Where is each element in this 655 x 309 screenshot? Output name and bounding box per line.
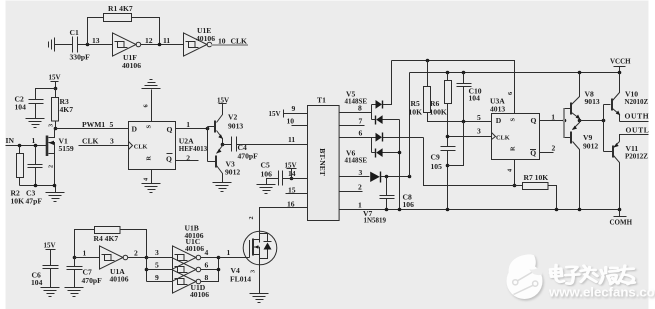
capacitor C10 (463, 73, 465, 84)
svg-text:16: 16 (287, 200, 295, 209)
wire T1 pin 6 (340, 137, 372, 139)
svg-text:106: 106 (403, 200, 415, 209)
svg-text:8: 8 (205, 273, 209, 282)
svg-text:C1: C1 (70, 28, 79, 37)
transistor V10 N2010Z NPN (604, 73, 620, 122)
wire feedback to D (448, 122, 464, 166)
svg-text:106: 106 (261, 170, 273, 179)
svg-text:CLK: CLK (496, 134, 510, 141)
node VCCH rail / V8 collector (578, 71, 582, 75)
svg-text:4148SE: 4148SE (345, 157, 368, 165)
node V10/V11 base (602, 119, 606, 123)
wire U1A out (128, 257, 147, 259)
svg-text:5159: 5159 (59, 144, 74, 153)
svg-text:1: 1 (32, 136, 36, 145)
op-amp U1E (schmitt inverter) (184, 33, 212, 56)
wire U1D out (201, 258, 219, 282)
node C9 bottom rail (446, 208, 450, 212)
node VCCH (618, 71, 622, 75)
node outputs (217, 256, 221, 260)
svg-text:3: 3 (250, 270, 257, 273)
node V8/V9 base (563, 119, 567, 123)
node V8/V9 emitters (578, 119, 582, 123)
svg-text:47pF: 47pF (26, 197, 43, 206)
flip-flop U3A (492, 114, 540, 160)
ground (U2A pin 4) (142, 184, 161, 193)
svg-text:2: 2 (248, 216, 255, 219)
svg-text:4148SE: 4148SE (345, 98, 368, 106)
svg-text:Q: Q (166, 155, 172, 164)
wire C2 to ground (35, 104, 37, 119)
transistor V9 9012 PNP (565, 121, 580, 210)
node pin3 wire end (408, 175, 412, 179)
ground (V4) (250, 294, 269, 303)
wire source rail (20, 186, 56, 193)
wire U3A Qbar stub pin 2 (540, 152, 554, 154)
svg-text:BT-NET: BT-NET (318, 148, 327, 176)
svg-text:104: 104 (15, 103, 27, 112)
capacitor C3 (35, 146, 37, 165)
svg-text:4: 4 (205, 248, 209, 257)
svg-text:4013: 4013 (490, 105, 505, 114)
svg-text:2: 2 (134, 249, 138, 258)
capacitor C8 (386, 177, 388, 196)
wire d3 path to R7 (424, 138, 523, 186)
svg-text:5: 5 (155, 260, 159, 269)
svg-text:104: 104 (469, 94, 481, 103)
svg-text:D: D (496, 116, 502, 125)
svg-text:9: 9 (155, 273, 159, 282)
wire C1 to U1F (78, 44, 113, 46)
svg-text:R: R (510, 146, 517, 151)
svg-text:15V: 15V (217, 97, 229, 105)
wire R4 feedback right (120, 230, 147, 258)
wire U3A Q pin 1 (540, 120, 565, 122)
wire T1 pin 7 stub (340, 125, 365, 127)
ground (C5) (257, 185, 276, 194)
diode V6a (372, 137, 376, 139)
wire emitters to V10/V11 base (580, 120, 604, 122)
ground (V1 source) (46, 193, 65, 202)
svg-text:R: R (146, 156, 153, 161)
svg-text:C9: C9 (431, 153, 440, 162)
node V2/V3 base (206, 127, 210, 131)
capacitor C4 (223, 144, 232, 146)
node D wire / C10 (462, 120, 466, 124)
svg-text:3: 3 (110, 137, 114, 146)
wire U1C input (147, 269, 173, 271)
svg-text:1N5819: 1N5819 (364, 217, 387, 225)
wire input vertical (146, 258, 148, 282)
svg-text:5: 5 (110, 120, 114, 129)
transistor V8 9013 NPN (565, 73, 580, 121)
transistor V3 9012 PNP (208, 145, 223, 183)
svg-text:6: 6 (507, 92, 514, 95)
transformer T1 BT-NET (308, 106, 340, 221)
wire 15V to C2 (36, 89, 56, 100)
node C9 bottom feedback (446, 164, 450, 168)
wire U1F out (141, 44, 184, 46)
capacitor C9 (441, 147, 456, 151)
ground (above U2A pin 6, inverted) (142, 80, 161, 89)
wire T1 pin 8 (340, 105, 372, 120)
wire U2A pin 6 (151, 90, 153, 122)
svg-text:www.elecfans.com: www.elecfans.com (548, 285, 655, 300)
svg-text:P2012Z: P2012Z (625, 152, 648, 160)
wire OUTH (620, 121, 649, 123)
svg-text:6: 6 (359, 129, 363, 138)
wire VCCH rail (410, 73, 620, 177)
svg-text:CLK: CLK (231, 37, 248, 46)
watermark logo elecfans (507, 254, 543, 299)
svg-text:10: 10 (287, 117, 295, 126)
wire U3A pin 3 (448, 136, 493, 138)
svg-text:330pF: 330pF (70, 53, 91, 62)
wire V8/V9 base vertical (563, 108, 565, 138)
svg-text:6: 6 (143, 104, 150, 107)
node 15V (54, 87, 58, 91)
op-amp U1C (schmitt inverter) (173, 258, 201, 281)
wire Q output pin 1 (176, 128, 208, 130)
wire IN (6, 145, 47, 147)
svg-text:S: S (146, 125, 153, 129)
node U1BCD input top (145, 256, 149, 260)
svg-text:Q: Q (167, 125, 173, 134)
svg-text:R4 4K7: R4 4K7 (94, 234, 119, 243)
svg-text:1: 1 (83, 249, 87, 258)
svg-text:40106: 40106 (122, 61, 141, 70)
transistor V1 (47, 129, 55, 186)
watermark text 电子发烧友 (550, 265, 634, 284)
ground (V3) (213, 183, 232, 192)
svg-text:C5: C5 (261, 161, 270, 170)
wire PWM1 (56, 128, 129, 130)
node C10 top (462, 71, 466, 75)
node T1 pin 14 (290, 177, 294, 181)
wire U1B input (147, 257, 173, 259)
transistor V11 P2012Z PNP (604, 142, 620, 210)
node V7 cathode / C8 (385, 175, 389, 179)
svg-text:9013: 9013 (228, 122, 243, 131)
wire CLK to U2A (79, 145, 129, 147)
svg-text:100K: 100K (430, 108, 447, 117)
svg-text:D: D (132, 125, 138, 134)
power 15V (C2/R3) (51, 82, 59, 89)
node pin 4 (513, 184, 517, 188)
transistor V4 FL014 MOSFET (243, 231, 277, 265)
ground (left of C1) (49, 38, 59, 52)
svg-text:Q: Q (531, 116, 537, 125)
svg-text:1: 1 (227, 248, 231, 257)
svg-text:40106: 40106 (190, 290, 209, 299)
svg-text:COMH: COMH (610, 219, 633, 227)
svg-text:OUTH: OUTH (625, 112, 650, 121)
wire C4 to T1 pin 11 (237, 144, 308, 146)
svg-text:CLK: CLK (134, 144, 148, 151)
svg-text:2: 2 (48, 165, 55, 168)
wire base vertical (207, 127, 209, 162)
diode V7 1N5819 (340, 176, 370, 178)
wire T1 pin 14 (292, 178, 308, 180)
wire 15V to R3 (55, 89, 57, 98)
svg-text:3: 3 (155, 248, 159, 257)
op-amp U1F (schmitt inverter) (113, 33, 141, 56)
svg-text:IN: IN (6, 136, 15, 145)
wire R7 right down (549, 186, 557, 210)
svg-text:9: 9 (292, 104, 296, 113)
svg-text:5: 5 (477, 113, 481, 122)
svg-text:1: 1 (186, 120, 190, 129)
wire U1B out (201, 257, 219, 259)
svg-text:R7 10K: R7 10K (524, 173, 549, 182)
wire R3 bottom (55, 121, 57, 129)
svg-text:15V: 15V (269, 110, 281, 118)
capacitor C7 (74, 258, 76, 267)
svg-text:4K7: 4K7 (60, 105, 74, 114)
svg-text:9012: 9012 (583, 142, 598, 151)
resistor R7 (523, 183, 549, 190)
wire feedback R1 (88, 18, 160, 45)
wire C1 left (59, 44, 73, 46)
svg-text:40106: 40106 (185, 244, 204, 253)
svg-text:S: S (510, 118, 517, 122)
svg-text:2: 2 (358, 183, 362, 192)
svg-text:104: 104 (31, 278, 43, 287)
svg-text:15V: 15V (49, 74, 61, 82)
svg-text:2: 2 (552, 144, 556, 153)
wire to V4 gate (219, 257, 250, 259)
node 11 (158, 43, 162, 47)
svg-text:40106: 40106 (110, 275, 129, 284)
svg-text:V2: V2 (228, 113, 237, 122)
ground (C7) (65, 288, 84, 297)
diode V5b (383, 119, 400, 121)
svg-text:6: 6 (205, 260, 209, 269)
wire d2/d4 vertical (399, 120, 401, 210)
op-amp U1D (schmitt inverter) (173, 270, 201, 293)
resistor R3 (52, 98, 59, 122)
wire U1A input (75, 257, 100, 259)
wire OUTL (620, 135, 649, 142)
node R2 top (18, 144, 22, 148)
svg-text:N2010Z: N2010Z (625, 98, 649, 106)
wire CLK net (211, 44, 248, 46)
wire U1C out (201, 269, 219, 271)
node 13 (86, 43, 90, 47)
wire bottom rail (340, 209, 620, 211)
svg-text:9012: 9012 (225, 168, 240, 177)
svg-text:9013: 9013 (585, 97, 600, 106)
node R6 top (446, 71, 450, 75)
capacitor C1 (73, 37, 78, 53)
node d4 (398, 151, 402, 155)
svg-text:T1: T1 (317, 96, 326, 105)
node U1A input (73, 256, 77, 260)
svg-text:12: 12 (145, 36, 153, 45)
svg-text:3: 3 (48, 124, 55, 127)
node PWM1 (54, 127, 58, 131)
power COMH (618, 208, 622, 212)
svg-text:1: 1 (551, 113, 555, 122)
wire T1 pin 15 stub (286, 193, 308, 195)
svg-text:1: 1 (358, 201, 362, 210)
node R5 top (426, 59, 430, 63)
wire R4 feedback left (75, 230, 95, 258)
wire T1 pin 16 to V4 drain (260, 208, 308, 243)
svg-text:R1 4K7: R1 4K7 (108, 4, 133, 13)
svg-text:OUTL: OUTL (626, 126, 650, 135)
svg-text:10K: 10K (11, 197, 25, 206)
power 15V (V2) (219, 104, 227, 113)
svg-text:13: 13 (92, 36, 100, 45)
svg-text:VCCH: VCCH (610, 58, 631, 66)
svg-text:2: 2 (186, 153, 190, 162)
svg-text:11: 11 (163, 36, 170, 45)
svg-text:15V: 15V (44, 242, 56, 250)
diode V6b (383, 152, 400, 154)
wire T1 pin 2 stub (340, 191, 363, 193)
wire T1 pin 10 stub (292, 125, 308, 127)
op-amp U1B (schmitt inverter) (173, 246, 201, 269)
resistor R1 (104, 14, 132, 22)
ground (C6) (41, 288, 60, 297)
resistor R4 (95, 227, 121, 234)
svg-text:40106: 40106 (196, 34, 215, 43)
svg-text:105: 105 (431, 162, 443, 171)
wire U2A pin 4 (151, 170, 153, 184)
resistor R2 (19, 146, 21, 154)
capacitor C5 (267, 171, 292, 186)
wire top rail (d1 to U3A pin6) (392, 61, 515, 115)
svg-text:CLK: CLK (82, 137, 99, 146)
svg-text:7: 7 (359, 117, 363, 126)
capacitor C2 (29, 100, 44, 104)
node C3 top (34, 144, 38, 148)
transistor V2 9013 NPN (208, 113, 223, 145)
svg-text:14: 14 (288, 169, 296, 178)
resistor R5 (427, 61, 429, 87)
op-amp U1A (schmitt inverter) (100, 246, 128, 269)
svg-text:10K: 10K (409, 108, 423, 117)
wire U3A pin 4 (514, 160, 516, 186)
ground (C2) (26, 119, 45, 128)
wire V10/V11 base vertical (603, 105, 605, 152)
svg-text:470pF: 470pF (82, 276, 103, 285)
svg-text:HEF4013: HEF4013 (179, 145, 208, 153)
flip-flop U2A (129, 122, 176, 170)
svg-text:FL014: FL014 (230, 275, 251, 284)
wire Qbar stub pin 2 (176, 160, 199, 162)
node emitter junction (221, 143, 225, 147)
capacitor C6 (43, 266, 59, 269)
svg-text:3: 3 (477, 127, 481, 136)
diode V5a (372, 104, 376, 106)
resistor R6 (447, 73, 449, 81)
wire U1D input (147, 281, 173, 283)
svg-text:470pF: 470pF (238, 152, 259, 161)
svg-text:PWM1: PWM1 (82, 120, 105, 129)
svg-text:15: 15 (288, 186, 296, 195)
svg-text:3: 3 (359, 168, 363, 177)
svg-text:11: 11 (288, 135, 295, 144)
svg-text:10: 10 (218, 37, 226, 46)
